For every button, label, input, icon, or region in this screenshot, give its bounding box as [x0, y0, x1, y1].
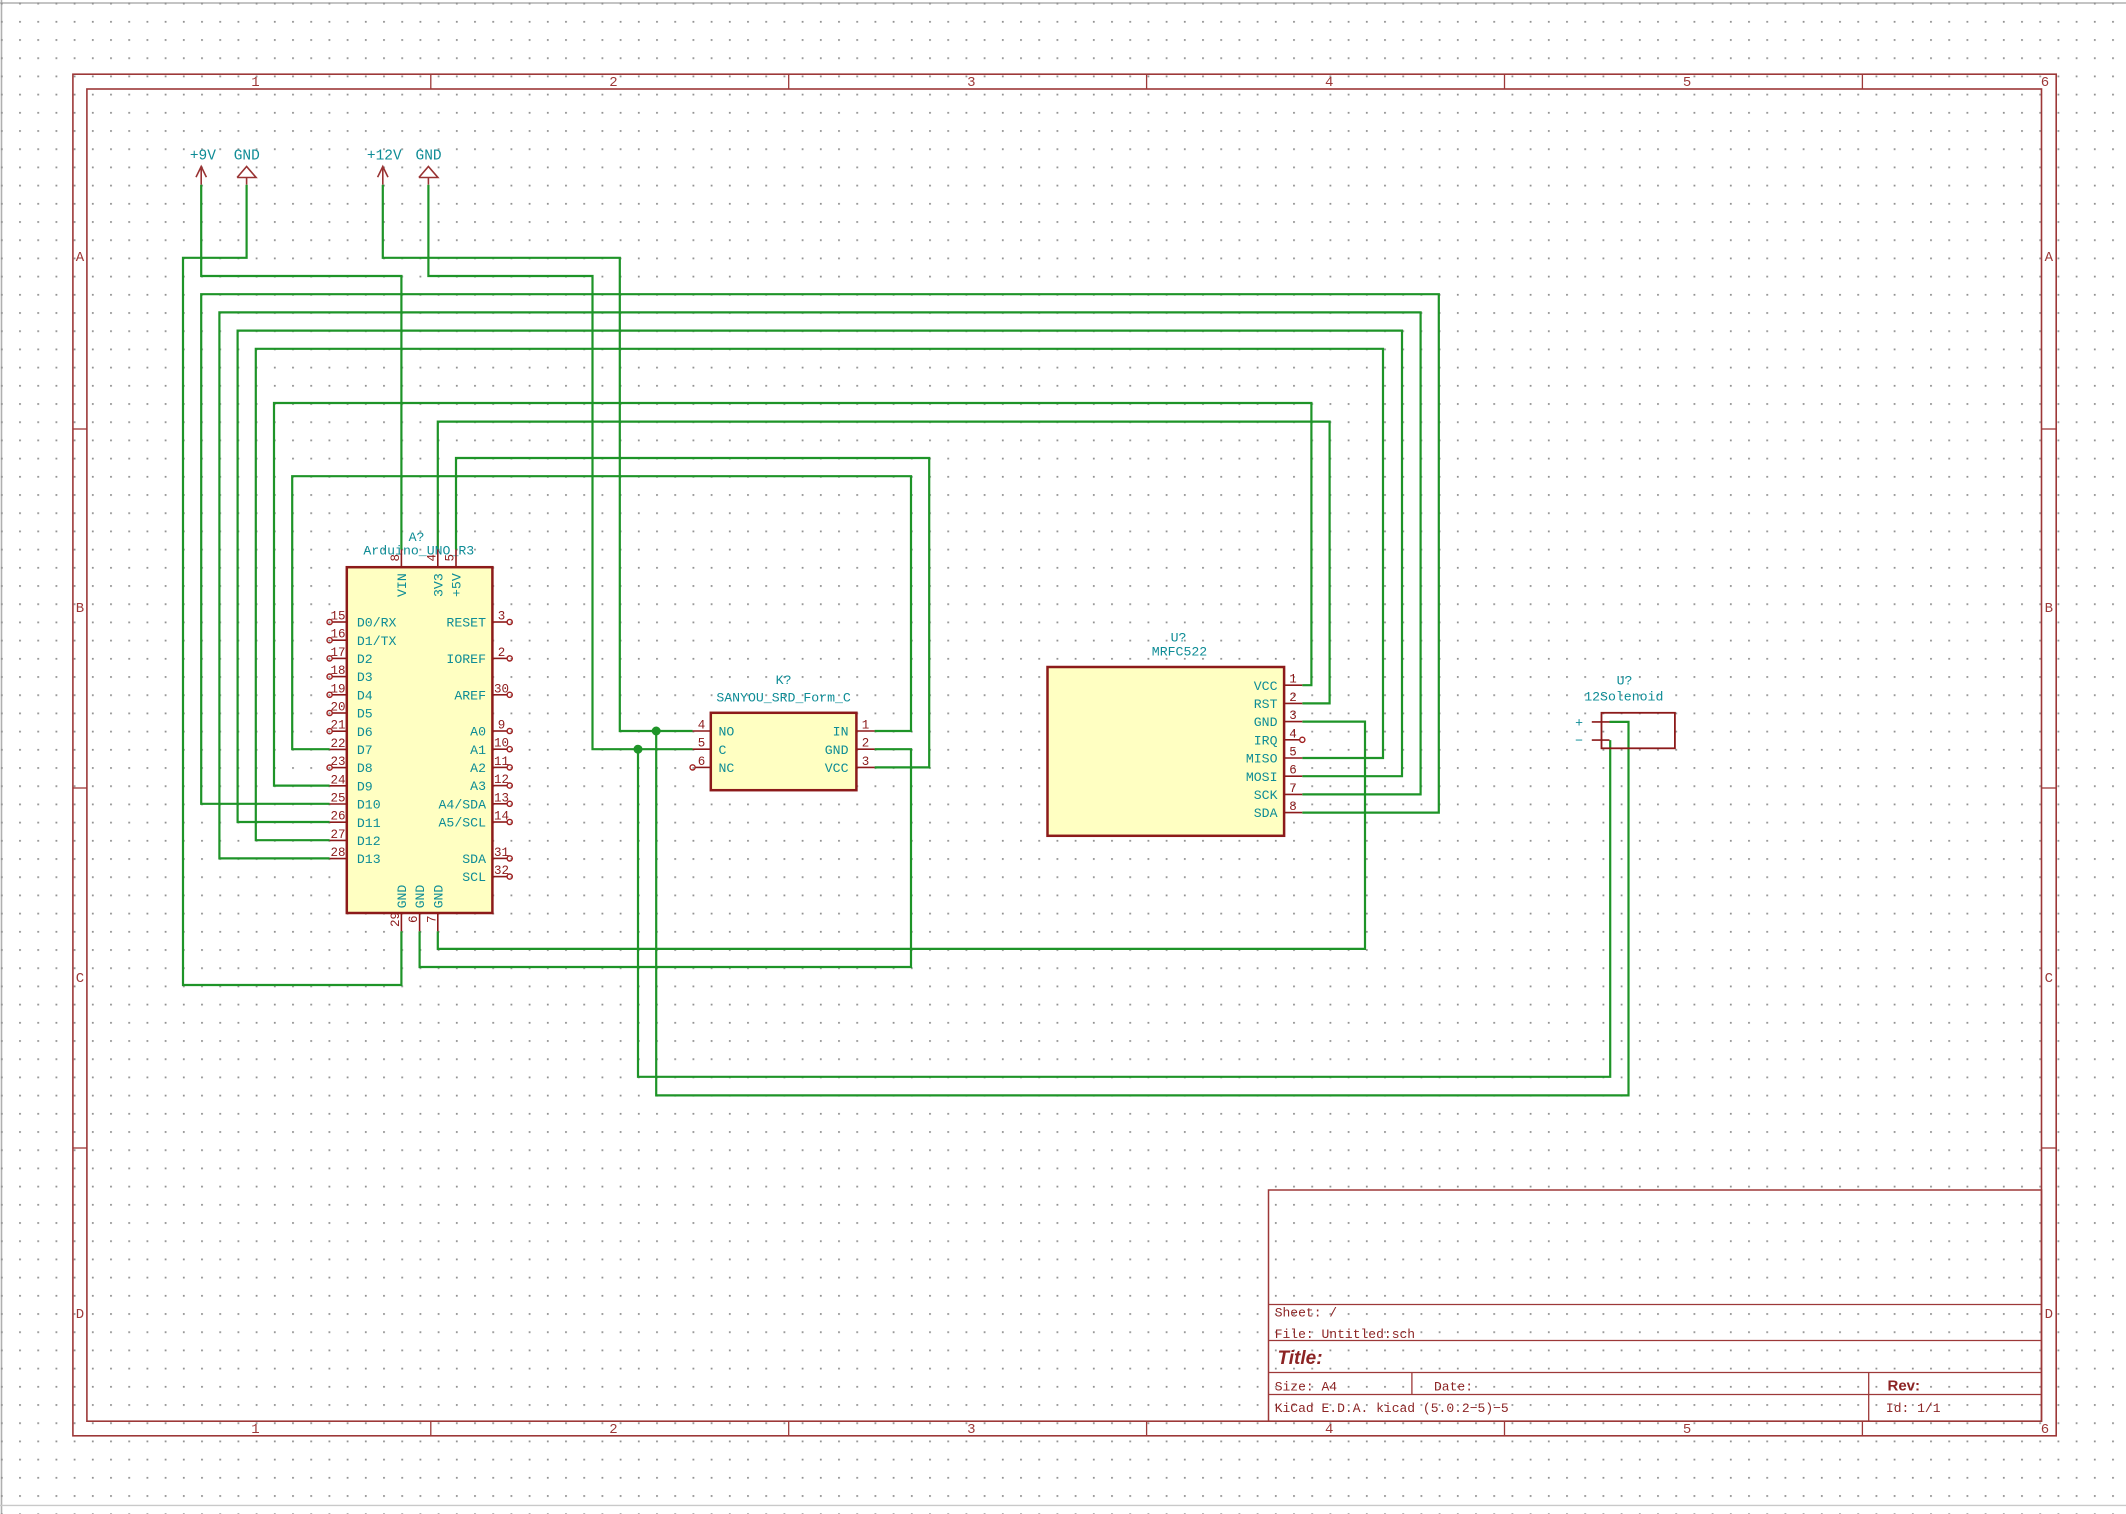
mrfc522 pin 6 MOSI — [1246, 764, 1302, 785]
svg-text:SANYOU_SRD_Form_C: SANYOU_SRD_Form_C — [716, 691, 851, 706]
wire Arduino 3V3 to MRFC522 RST — [438, 422, 1330, 704]
svg-text:IOREF: IOREF — [446, 652, 486, 667]
svg-text:6: 6 — [698, 755, 706, 769]
svg-text:18: 18 — [330, 664, 345, 678]
power symbol +9V — [190, 149, 216, 185]
svg-text:C: C — [2045, 971, 2053, 987]
arduino pin 8 VIN — [389, 550, 410, 598]
arduino pin 12 A3 — [470, 773, 512, 794]
svg-text:11: 11 — [494, 755, 509, 769]
svg-text:File: Untitled:sch: File: Untitled:sch — [1275, 1327, 1415, 1342]
RFID reader U? MRFC522 — [1048, 631, 1285, 836]
svg-text:2: 2 — [1289, 691, 1297, 705]
svg-text:7: 7 — [1289, 782, 1297, 796]
mrfc522 pin 5 MISO — [1246, 746, 1302, 767]
arduino pin 30 AREF — [454, 682, 512, 703]
svg-text:4: 4 — [1325, 1422, 1333, 1438]
svg-text:5: 5 — [1289, 746, 1297, 760]
svg-text:22: 22 — [330, 737, 345, 751]
wire GND to relay C — [428, 185, 692, 750]
arduino pin 17 D2 — [327, 646, 373, 667]
svg-text:4: 4 — [1289, 727, 1297, 741]
svg-text:24: 24 — [330, 773, 345, 787]
mrfc522 pin 1 VCC — [1254, 673, 1303, 694]
svg-text:29: 29 — [389, 912, 403, 927]
svg-text:A: A — [76, 250, 85, 266]
svg-text:+5V: +5V — [450, 573, 465, 597]
arduino pin 3 RESET — [446, 610, 512, 631]
wire Arduino +5V to relay VCC — [456, 458, 929, 767]
svg-text:MRFC522: MRFC522 — [1152, 645, 1207, 660]
svg-text:D11: D11 — [357, 816, 381, 831]
relay pin 3 VCC — [825, 755, 875, 776]
arduino pin 7 GND — [425, 885, 446, 932]
svg-text:26: 26 — [330, 810, 345, 824]
svg-text:12Solenoid: 12Solenoid — [1584, 690, 1663, 705]
svg-text:IN: IN — [833, 725, 849, 740]
arduino pin 11 A2 — [470, 755, 512, 776]
svg-text:D1/TX: D1/TX — [357, 634, 397, 649]
svg-text:17: 17 — [330, 646, 345, 660]
mrfc522 pin 7 SCK — [1254, 782, 1303, 803]
relay K? SANYOU_SRD_Form_C — [711, 673, 857, 790]
svg-text:3: 3 — [498, 610, 506, 624]
arduino pin 21 D6 — [327, 719, 373, 740]
arduino pin 32 SCL — [462, 864, 512, 885]
svg-text:3: 3 — [967, 75, 975, 91]
mrfc522 pin 3 GND — [1254, 709, 1303, 730]
arduino pin 19 D4 — [327, 682, 373, 703]
svg-text:Sheet: /: Sheet: / — [1275, 1306, 1338, 1321]
Arduino A? Arduino_UNO_R3 — [347, 530, 493, 913]
svg-text:D10: D10 — [357, 798, 381, 813]
wire relay NO to solenoid + — [656, 722, 1628, 1096]
relay pin 5 C — [693, 737, 727, 758]
svg-text:D4: D4 — [357, 688, 373, 703]
svg-text:5: 5 — [1683, 1422, 1691, 1438]
arduino pin 26 D11 — [330, 810, 381, 831]
wire relay IN to Arduino D7 — [292, 476, 911, 749]
svg-text:−: − — [1575, 734, 1583, 749]
arduino pin 16 D1/TX — [327, 628, 397, 649]
arduino pin 15 D0/RX — [327, 610, 397, 631]
svg-text:3V3: 3V3 — [431, 573, 446, 597]
arduino pin 23 D8 — [327, 755, 373, 776]
mrfc522 pin 8 SDA — [1254, 800, 1303, 821]
svg-text:19: 19 — [330, 682, 345, 696]
svg-text:1: 1 — [1289, 673, 1297, 687]
wire +12V to relay NO — [383, 185, 693, 731]
svg-text:A3: A3 — [470, 779, 486, 794]
svg-text:14: 14 — [494, 810, 509, 824]
svg-text:Date:: Date: — [1434, 1380, 1473, 1395]
svg-text:MOSI: MOSI — [1246, 770, 1278, 785]
svg-text:13: 13 — [494, 791, 509, 805]
svg-text:VCC: VCC — [825, 761, 849, 776]
mrfc522 pin 2 RST — [1254, 691, 1303, 712]
svg-text:GND: GND — [1254, 715, 1278, 730]
svg-text:D12: D12 — [357, 834, 381, 849]
wire +9V to Arduino VIN — [201, 185, 401, 550]
svg-text:RST: RST — [1254, 697, 1278, 712]
svg-text:+: + — [1575, 716, 1583, 731]
svg-text:GND: GND — [431, 885, 446, 909]
svg-text:23: 23 — [330, 755, 345, 769]
svg-text:D0/RX: D0/RX — [357, 616, 397, 631]
arduino pin 5 +5V — [444, 550, 465, 598]
svg-text:2: 2 — [862, 737, 870, 751]
svg-text:GND: GND — [416, 149, 442, 165]
svg-text:Size: A4: Size: A4 — [1275, 1380, 1338, 1395]
svg-text:+12V: +12V — [367, 149, 402, 165]
svg-text:31: 31 — [494, 846, 509, 860]
svg-text:28: 28 — [330, 846, 345, 860]
svg-text:D9: D9 — [357, 779, 373, 794]
svg-text:D2: D2 — [357, 652, 373, 667]
svg-text:4: 4 — [698, 719, 706, 733]
arduino pin 28 D13 — [330, 846, 381, 867]
svg-text:U?: U? — [1171, 631, 1187, 646]
wire MRFC522 VCC to Arduino D9 — [274, 403, 1311, 786]
junction relay C node — [634, 745, 642, 753]
svg-text:A0: A0 — [470, 725, 486, 740]
solenoid pin - — [1575, 734, 1609, 749]
svg-text:AREF: AREF — [454, 688, 486, 703]
svg-text:C: C — [719, 743, 727, 758]
svg-text:1: 1 — [251, 1422, 259, 1438]
svg-text:GND: GND — [395, 885, 410, 909]
svg-text:21: 21 — [330, 719, 345, 733]
svg-text:B: B — [76, 601, 84, 617]
arduino pin 25 D10 — [330, 792, 381, 813]
arduino pin 6 GND — [407, 885, 428, 932]
svg-text:5: 5 — [444, 554, 458, 562]
relay pin 6 NC — [690, 755, 734, 776]
svg-text:GND: GND — [825, 743, 849, 758]
svg-text:27: 27 — [330, 828, 345, 842]
svg-text:A: A — [2045, 250, 2054, 266]
svg-text:3: 3 — [862, 755, 870, 769]
svg-text:D5: D5 — [357, 707, 373, 722]
relay pin 1 IN — [833, 719, 875, 740]
svg-text:7: 7 — [425, 915, 439, 923]
svg-text:SDA: SDA — [1254, 806, 1278, 821]
svg-text:25: 25 — [330, 792, 345, 806]
svg-text:4: 4 — [425, 554, 439, 562]
svg-text:32: 32 — [494, 864, 509, 878]
svg-text:6: 6 — [407, 915, 421, 923]
svg-text:SCK: SCK — [1254, 788, 1278, 803]
svg-text:6: 6 — [2041, 1422, 2049, 1438]
arduino pin 9 A0 — [470, 719, 512, 740]
svg-text:20: 20 — [330, 701, 345, 715]
svg-text:+9V: +9V — [190, 149, 216, 165]
power symbol GND (left) — [234, 149, 260, 185]
svg-text:A2: A2 — [470, 761, 486, 776]
svg-text:SCL: SCL — [462, 870, 486, 885]
arduino pin 2 IOREF — [446, 646, 512, 667]
svg-text:VIN: VIN — [395, 573, 410, 597]
svg-text:D: D — [2045, 1307, 2053, 1323]
svg-text:B: B — [2045, 601, 2053, 617]
arduino pin 27 D12 — [330, 828, 381, 849]
wire MRFC522 MOSI to Arduino D11 — [238, 331, 1402, 822]
wire MRFC522 SCK to Arduino D13 — [219, 312, 1420, 858]
wire MRFC522 SDA to Arduino D10 — [201, 294, 1439, 812]
relay pin 2 GND — [825, 737, 875, 758]
svg-text:IRQ: IRQ — [1254, 733, 1278, 748]
svg-text:A1: A1 — [470, 743, 486, 758]
mrfc522 pin 4 IRQ — [1254, 727, 1305, 748]
svg-text:A4/SDA: A4/SDA — [439, 797, 487, 812]
svg-text:C: C — [76, 971, 84, 987]
arduino pin 20 D5 — [327, 701, 373, 722]
svg-text:8: 8 — [1289, 800, 1297, 814]
arduino pin 14 A5/SCL — [439, 810, 513, 831]
arduino pin 31 SDA — [462, 846, 512, 867]
svg-text:6: 6 — [2041, 75, 2049, 91]
svg-text:SDA: SDA — [462, 852, 486, 867]
junction relay NO node — [652, 727, 660, 735]
svg-text:U?: U? — [1617, 674, 1633, 689]
svg-text:2: 2 — [609, 1422, 617, 1438]
svg-text:Title:: Title: — [1278, 1348, 1323, 1369]
svg-text:5: 5 — [1683, 75, 1691, 91]
power symbol +12V — [367, 149, 402, 185]
wire GND to Arduino GND pin29 — [183, 185, 401, 985]
svg-text:3: 3 — [1289, 709, 1297, 723]
solenoid pin + — [1575, 716, 1609, 731]
svg-text:1: 1 — [251, 75, 259, 91]
arduino pin 10 A1 — [470, 737, 512, 758]
svg-text:3: 3 — [967, 1422, 975, 1438]
arduino pin 4 3V3 — [425, 550, 446, 598]
solenoid U? 12Solenoid — [1584, 674, 1675, 749]
svg-text:2: 2 — [609, 75, 617, 91]
wire MRFC522 GND to Arduino GND pin7 — [438, 722, 1365, 949]
svg-text:30: 30 — [494, 682, 509, 696]
svg-text:D8: D8 — [357, 761, 373, 776]
power symbol GND (right) — [416, 149, 442, 185]
svg-text:MISO: MISO — [1246, 752, 1278, 767]
svg-text:6: 6 — [1289, 764, 1297, 778]
arduino pin 24 D9 — [330, 773, 373, 794]
svg-text:Id: 1/1: Id: 1/1 — [1886, 1401, 1941, 1416]
svg-text:16: 16 — [330, 628, 345, 642]
svg-text:Arduino_UNO_R3: Arduino_UNO_R3 — [363, 544, 474, 559]
svg-text:D7: D7 — [357, 743, 373, 758]
arduino pin 29 GND — [389, 885, 410, 932]
wire relay C to solenoid - — [638, 740, 1610, 1077]
svg-text:15: 15 — [330, 610, 345, 624]
wire relay GND to Arduino GND pin6 — [420, 749, 911, 967]
svg-text:K?: K? — [776, 673, 792, 688]
svg-text:D3: D3 — [357, 670, 373, 685]
svg-text:D: D — [76, 1307, 84, 1323]
svg-text:D6: D6 — [357, 725, 373, 740]
svg-text:8: 8 — [389, 554, 403, 562]
svg-text:VCC: VCC — [1254, 679, 1278, 694]
svg-text:9: 9 — [498, 719, 506, 733]
svg-text:4: 4 — [1325, 75, 1333, 91]
svg-text:2: 2 — [498, 646, 506, 660]
svg-text:10: 10 — [494, 737, 509, 751]
arduino pin 18 D3 — [327, 664, 373, 685]
svg-text:NO: NO — [719, 725, 735, 740]
svg-text:5: 5 — [698, 737, 706, 751]
wire MRFC522 MISO to Arduino D12 — [256, 349, 1383, 840]
svg-text:GND: GND — [413, 885, 428, 909]
svg-text:Rev:: Rev: — [1888, 1378, 1921, 1395]
svg-text:12: 12 — [494, 773, 509, 787]
svg-text:A5/SCL: A5/SCL — [439, 816, 487, 831]
arduino pin 13 A4/SDA — [439, 791, 513, 812]
svg-text:NC: NC — [719, 761, 735, 776]
svg-text:GND: GND — [234, 149, 260, 165]
svg-text:KiCad E.D.A. kicad (5.0.2−5)−: KiCad E.D.A. kicad (5.0.2−5)−5 — [1275, 1401, 1509, 1416]
relay pin 4 NO — [693, 719, 735, 740]
svg-text:RESET: RESET — [446, 616, 486, 631]
arduino pin 22 D7 — [330, 737, 373, 758]
svg-text:D13: D13 — [357, 852, 381, 867]
svg-text:1: 1 — [862, 719, 870, 733]
